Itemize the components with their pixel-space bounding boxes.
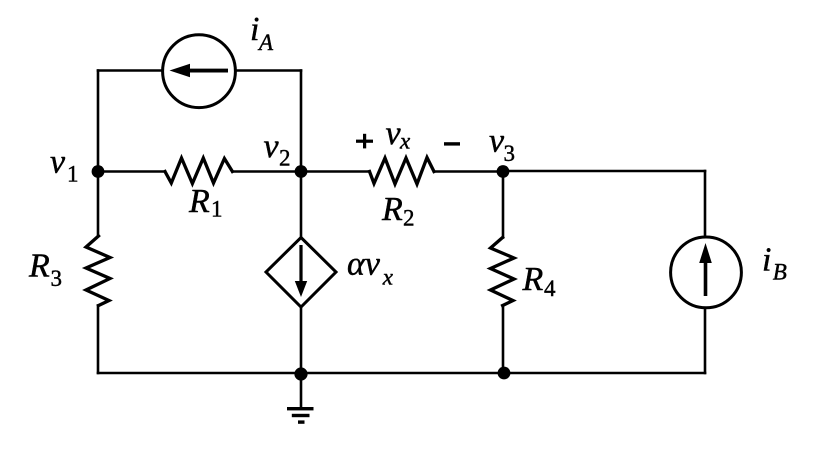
resistor R1: [165, 158, 232, 184]
svg-text:v: v: [50, 143, 66, 180]
ground symbol bar 2: [292, 414, 310, 417]
svg-text:2: 2: [279, 145, 291, 170]
wire right vertical upper (corner to iB): [704, 171, 707, 236]
svg-text:3: 3: [504, 141, 516, 166]
svg-text:A: A: [257, 30, 274, 55]
svg-text:αv: αv: [347, 245, 381, 282]
ground symbol bar 1: [287, 407, 314, 410]
node v1 dot: [92, 165, 105, 178]
svg-text:B: B: [773, 260, 787, 285]
current source iA circle: [163, 35, 236, 108]
svg-text:i: i: [762, 241, 771, 278]
svg-text:4: 4: [544, 276, 556, 301]
wire R3 to bottom rail: [97, 306, 100, 374]
svg-text:x: x: [399, 128, 411, 153]
svg-text:x: x: [382, 264, 394, 289]
svg-text:1: 1: [211, 197, 223, 222]
svg-text:R: R: [381, 191, 403, 228]
wire bottom rail: [98, 372, 705, 375]
node v2 dot: [295, 165, 308, 178]
wire R2 to v3: [434, 170, 503, 173]
dependent source alpha-vx diamond: [266, 238, 336, 308]
wire left vertical upper (top rail to v1): [97, 71, 100, 172]
wire v2 to R2: [301, 170, 370, 173]
wire ground stub: [300, 374, 303, 408]
wire v1 to R1: [98, 170, 165, 173]
svg-text:R: R: [188, 183, 210, 220]
ground symbol bar 3: [298, 420, 305, 423]
wire R4 to bottom rail: [502, 306, 505, 374]
resistor R3: [86, 236, 110, 306]
svg-text:v: v: [264, 128, 280, 165]
svg-text:1: 1: [67, 162, 79, 187]
label minus of vx: [444, 142, 460, 145]
wire v1 down to R3: [97, 172, 100, 237]
wire top-right horizontal (iA to v2 branch): [237, 69, 301, 72]
svg-text:3: 3: [51, 266, 63, 291]
node R4-bottom junction dot: [498, 367, 511, 380]
wire v2 down to dependent source: [300, 172, 303, 238]
wire v3 down to R4: [502, 172, 505, 238]
wire right vertical lower (iB to bottom rail): [704, 309, 707, 373]
node v3 dot: [497, 165, 510, 178]
current source iB circle: [671, 237, 742, 308]
resistor R4: [491, 238, 515, 306]
iA arrow (pointing left): [170, 64, 229, 78]
node ground junction dot: [294, 367, 307, 380]
wire top-left horizontal (v1 branch to iA): [98, 69, 161, 72]
wire R1 to v2: [232, 170, 301, 173]
dependent source arrow (pointing down): [295, 245, 307, 297]
svg-text:R: R: [28, 248, 50, 285]
wire dependent source to ground junction: [300, 307, 303, 374]
svg-text:2: 2: [403, 206, 415, 231]
svg-text:R: R: [522, 261, 544, 298]
iB arrow (pointing up): [699, 243, 712, 296]
wire v3 to right corner: [503, 170, 705, 173]
wire right vertical of top loop (down to v2): [300, 71, 303, 172]
resistor R2: [370, 158, 435, 185]
label plus of vx: [356, 134, 373, 149]
